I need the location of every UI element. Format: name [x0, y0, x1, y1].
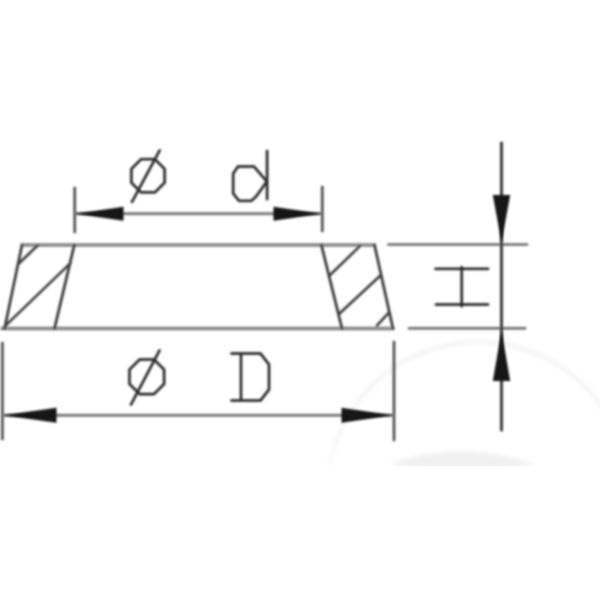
label D glyph [232, 354, 270, 401]
dim d left arrow [76, 207, 124, 221]
left section inner line [55, 245, 75, 329]
dim d right arrow [274, 207, 322, 221]
left hatch line 1 [18, 246, 37, 265]
label H crossbar [460, 267, 463, 306]
right hatch line 1 [330, 246, 361, 276]
dim H line [500, 143, 503, 430]
dim H top extension line [389, 243, 528, 246]
watermark blob [390, 451, 536, 472]
label d bowl [233, 167, 267, 201]
left hatch line 2 [5, 263, 71, 327]
dim H down arrow [493, 195, 510, 242]
washer right edge [375, 245, 394, 329]
right hatch line 3 [377, 313, 389, 326]
dim H up arrow [493, 331, 510, 381]
dim d right extension line [321, 187, 324, 231]
right section inner line [321, 245, 342, 329]
dim D right arrow [342, 408, 393, 423]
label diameter symbol top [131, 159, 164, 192]
label d stem [266, 151, 269, 199]
right hatch line 2 [339, 275, 381, 314]
dim D right extension line [393, 342, 396, 440]
dim D left extension line [1, 343, 4, 439]
label diameter symbol bottom [130, 360, 165, 395]
label diameter slash top [132, 151, 160, 202]
dim D line [4, 414, 393, 417]
dim d left extension line [73, 188, 76, 232]
label diameter slash bottom [131, 351, 160, 405]
washer bottom edge [2, 327, 393, 331]
dim H bottom extension line [409, 327, 525, 330]
label H bottom stroke [436, 303, 488, 306]
washer top edge [22, 243, 375, 247]
washer left edge [5, 245, 22, 329]
label H top stroke [436, 267, 489, 270]
dim d line [76, 212, 321, 215]
watermark circle [327, 342, 600, 605]
dim D left arrow [4, 408, 57, 423]
